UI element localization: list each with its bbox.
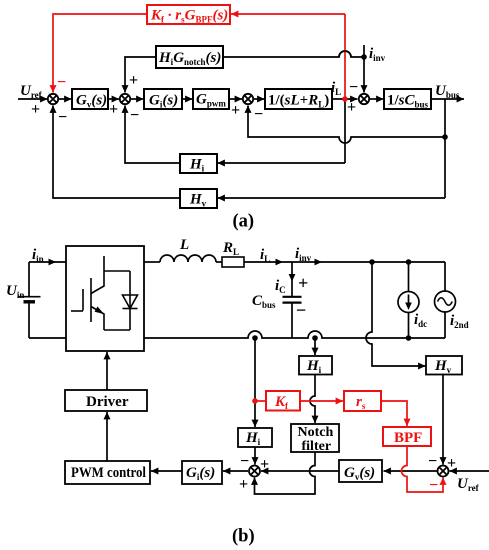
wire Hi-left down to left junction <box>254 447 256 465</box>
block Gv(s) (a) <box>72 89 108 109</box>
svg-text:−: − <box>130 107 139 124</box>
current source idc <box>398 292 419 313</box>
block 1/(sL+RL) (a) <box>265 89 332 109</box>
source i2nd <box>435 291 456 312</box>
wire Cbus branch bottom <box>291 303 293 338</box>
svg-text:+: + <box>347 99 356 116</box>
wire Hv down to right junction <box>442 375 444 465</box>
wire iL: plant box to J4 <box>332 98 358 100</box>
node bus tap Kf/Hi-left <box>252 335 258 341</box>
node top wire idc tap <box>406 259 412 265</box>
wire red BPF down to right junction (hops y=471 wire) <box>402 446 444 492</box>
transistor Q1 IGBT symbol <box>71 256 130 330</box>
wire Gpwm to J3 <box>229 98 242 100</box>
wire red rs to BPF <box>381 401 407 426</box>
svg-text:iinv: iinv <box>369 46 386 63</box>
arrowhead iC <box>289 274 296 282</box>
svg-text:RL: RL <box>222 240 239 257</box>
arrowhead iL (b) <box>276 259 284 266</box>
summing junction J3 (a) <box>243 94 253 104</box>
svg-text:+: + <box>260 456 269 473</box>
wire Uref input (b) <box>450 470 489 472</box>
svg-text:−: − <box>240 453 249 470</box>
wire L to RL <box>216 261 222 263</box>
svg-text:−: − <box>349 79 358 96</box>
wire battery bottom lead <box>28 302 30 338</box>
summing junction J1 (a) <box>48 94 58 104</box>
arrowhead iinv (b) <box>315 259 323 266</box>
diode D1 freewheel <box>123 271 138 330</box>
svg-text:iC: iC <box>275 278 286 295</box>
wire Gv to J2 <box>108 98 119 100</box>
svg-text:+: + <box>298 273 308 293</box>
wire Hi-mid down to Notch (hops red wire) <box>310 375 315 424</box>
block Kf red <box>266 391 300 411</box>
svg-text:−: − <box>57 74 66 91</box>
svg-text:idc: idc <box>414 312 427 329</box>
wire Cbus branch top <box>291 262 293 296</box>
block Driver <box>65 390 147 411</box>
node bus tap Hi-mid <box>312 335 318 341</box>
block HiGnotch(s) (a) <box>156 46 223 68</box>
svg-text:Gv(s): Gv(s) <box>76 93 107 110</box>
battery Uin short plate <box>24 300 36 303</box>
svg-text:(b): (b) <box>232 527 255 547</box>
svg-text:+: + <box>231 102 240 119</box>
node top wire Hv tap <box>369 259 375 265</box>
svg-text:i2nd: i2nd <box>450 313 469 330</box>
wire Hi output up to J2 <box>125 106 180 164</box>
node red Kf tap <box>252 398 258 404</box>
wire Ubus output <box>431 98 464 100</box>
node bus idc return <box>406 335 412 341</box>
wire into Hi box <box>218 162 346 164</box>
svg-text:+: + <box>31 101 40 118</box>
block rs red <box>344 391 381 411</box>
block Gpwm (a) <box>193 89 229 109</box>
svg-text:PWM control: PWM control <box>71 465 146 481</box>
svg-text:Gi(s): Gi(s) <box>186 465 215 482</box>
svg-text:L: L <box>179 237 189 253</box>
wire into Hv box <box>218 197 446 199</box>
svg-text:iinv: iinv <box>295 246 312 263</box>
wire notch branch: iinv node to HiGnotch box (hop over x=345) <box>224 51 365 57</box>
block Notch filter <box>291 424 339 452</box>
summing junction J2 (a) <box>120 94 130 104</box>
svg-text:−: − <box>296 300 306 320</box>
svg-text:iin: iin <box>32 247 44 264</box>
wire red: iL tap to BPF box input <box>231 13 345 15</box>
wire red Kf to rs <box>300 400 343 402</box>
wire bus tap down to Hi-left <box>254 338 256 427</box>
block Gi(s) (a) <box>144 89 182 109</box>
summing junction left (b) <box>249 466 260 477</box>
wire back-emf feedback to J3 (hop over x=345) <box>248 106 445 144</box>
svg-text:filter: filter <box>302 439 332 454</box>
wire left junction to Gi <box>223 470 248 472</box>
node red iL tap <box>342 96 348 102</box>
wire red tap to Kf <box>255 400 266 402</box>
svg-text:+: + <box>447 455 456 472</box>
block Hv (a) <box>180 189 217 208</box>
inductor L <box>160 255 216 262</box>
svg-text:+: + <box>109 101 118 118</box>
wire Hv tap down (hops bus) <box>366 262 426 366</box>
block Hv (b) <box>426 356 462 375</box>
wire iL tap down to Hi <box>344 99 346 163</box>
wire J1 to Gv <box>59 98 72 100</box>
wire iinv input down to J4 <box>363 45 365 93</box>
wire battery top lead <box>28 262 30 296</box>
arrowhead iin <box>49 259 57 266</box>
block Kf rs GBPF(s) red feedback (a) <box>147 5 230 24</box>
svg-text:−: − <box>428 453 437 470</box>
block Gi(s) (b) <box>182 461 222 484</box>
IGBT bridge box <box>66 246 144 351</box>
svg-text:+: + <box>239 476 248 493</box>
block PWM control <box>65 461 150 484</box>
wire notch-line hop redrawn over red <box>339 51 351 57</box>
block Hi left (b) <box>238 428 272 447</box>
block Hi mid (b) <box>299 356 332 375</box>
summing junction right (b) <box>438 466 449 477</box>
svg-text:+: + <box>129 72 138 89</box>
capacitor Cbus plates <box>283 297 302 303</box>
node iinv tap on notch line <box>361 54 367 60</box>
wire idc bottom lead <box>408 313 410 339</box>
svg-text:Notch: Notch <box>298 425 334 440</box>
wire idc top lead <box>408 262 410 292</box>
svg-text:Cbus: Cbus <box>252 293 276 310</box>
wire i2nd top lead / corner <box>444 262 446 291</box>
wire Gi to Gpwm <box>182 98 193 100</box>
wire red: BPF box output to J1 <box>53 14 147 93</box>
wire Uref input (a) <box>18 98 48 100</box>
svg-text:Driver: Driver <box>86 394 129 410</box>
battery Uin long plate <box>18 296 41 298</box>
wire i2nd bottom lead <box>444 312 446 338</box>
wire RL to right corner (bus top) <box>244 261 445 263</box>
block 1/sCbus (a) <box>384 89 431 109</box>
svg-text:Uref: Uref <box>457 476 480 493</box>
block BPF red <box>383 427 431 446</box>
svg-text:iL: iL <box>331 80 341 97</box>
svg-text:iL: iL <box>260 247 270 264</box>
svg-text:Gi(s): Gi(s) <box>149 93 178 110</box>
wire right junction to Gv <box>384 470 438 472</box>
svg-text:Uref: Uref <box>20 83 43 100</box>
svg-text:BPF: BPF <box>394 430 422 446</box>
svg-text:Uin: Uin <box>6 283 24 300</box>
wire red vertical from iL node <box>344 14 346 99</box>
wire Uin bottom to IGBT box <box>29 337 66 339</box>
wire bottom bus with bridge taps <box>144 331 445 338</box>
wire Hv output up to J1 <box>53 106 180 199</box>
svg-text:−: − <box>58 109 67 126</box>
svg-text:(a): (a) <box>233 212 255 232</box>
wire J4 to 1/sCbus <box>370 98 384 100</box>
svg-text:−: − <box>429 477 438 494</box>
block Hi (a) <box>180 154 217 173</box>
wire J3 to plant box <box>254 98 265 100</box>
wire Ubus feedback vertical <box>444 99 446 198</box>
wire HiGnotch output down to J2 <box>125 57 156 93</box>
wire Driver up to IGBT <box>106 352 108 390</box>
wire J2 to Gi <box>131 98 144 100</box>
resistor RL <box>222 257 244 267</box>
svg-text:Ubus: Ubus <box>435 83 460 100</box>
wire Uin top to IGBT box <box>29 261 66 263</box>
node Ubus feedback tap <box>442 134 448 140</box>
wire PWM control up to Driver <box>106 412 108 461</box>
wire Gv to left junction <box>261 470 339 472</box>
wire IGBT to inductor <box>144 261 160 263</box>
svg-text:Gv(s): Gv(s) <box>344 465 375 482</box>
wire Notch output down-left-up to left junction (hops y=471 wire) <box>255 452 316 494</box>
summing junction J4 (a) <box>359 94 369 104</box>
svg-text:−: − <box>254 106 263 123</box>
block Gv(s) (b) <box>339 460 382 482</box>
wire bus tap down to Hi-mid <box>314 338 316 355</box>
wire Gi to PWM control <box>151 470 182 472</box>
